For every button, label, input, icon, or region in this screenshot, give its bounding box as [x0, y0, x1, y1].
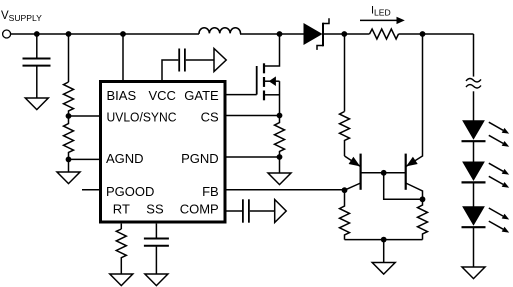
node Q2 collector junction [420, 196, 426, 202]
ground VCC sideways [214, 49, 226, 72]
resistor R2 [64, 116, 74, 159]
node bottom rail junction [381, 237, 387, 243]
ground AGND [57, 172, 80, 184]
inductor L1 [199, 28, 241, 34]
wire AGND to ground [68, 159, 70, 172]
wire divider top lead [68, 34, 70, 82]
wire LED3 to ground [473, 227, 475, 267]
wire inductor to diode [240, 33, 304, 35]
wire break squiggle [466, 78, 481, 88]
resistor R4 RT [116, 229, 126, 274]
wire R6 lead from rail [344, 34, 346, 112]
node diode cathode junction [341, 31, 347, 37]
node PGND junction [277, 154, 283, 160]
node BIAS junction [120, 31, 126, 37]
ground PGND [268, 173, 291, 185]
ground input [25, 98, 48, 110]
svg-text:RT: RT [113, 202, 130, 217]
wire input cap lead [36, 34, 38, 58]
capacitor C3 SS [144, 239, 169, 246]
transistor Q2 PNP [406, 34, 423, 199]
wire COMP cap to ground [250, 210, 275, 212]
node input cap junction [34, 31, 40, 37]
wire top rail [11, 33, 199, 35]
svg-text:AGND: AGND [106, 151, 144, 166]
svg-text:BIAS: BIAS [107, 88, 137, 103]
LED D2 [462, 121, 510, 147]
wire UVLO/SYNC pin [69, 115, 100, 117]
wire GATE pin [227, 94, 257, 96]
node VSUPPLY label [1, 10, 42, 23]
resistor R7 Q1 load [340, 190, 350, 239]
node divider junction [66, 31, 72, 37]
wire LED string drop [473, 34, 475, 77]
capacitor C1 [23, 59, 51, 66]
wire RT pin [120, 224, 122, 229]
svg-text:LED: LED [374, 7, 391, 17]
wire FB pin [227, 189, 345, 191]
wire CS pin [227, 115, 280, 117]
resistor R8 Q2 load [418, 199, 428, 239]
svg-text:FB: FB [202, 184, 219, 199]
wire SS cap to ground [155, 247, 157, 274]
wire LED2 to LED3 [473, 182, 475, 206]
wire diode to resistor [324, 33, 370, 35]
ground LED string [462, 267, 485, 279]
node LED rail junction [420, 31, 426, 37]
node switch junction [277, 31, 283, 37]
wire BIAS pin [122, 34, 124, 80]
wire VCC pin [162, 60, 178, 80]
LED D3 [462, 162, 510, 188]
capacitor C2 VCC bypass [179, 49, 185, 72]
wire PGND pin [227, 156, 280, 158]
svg-text:PGND: PGND [181, 151, 219, 166]
wire LED1 to LED2 [473, 141, 475, 162]
node FB collector junction [342, 187, 348, 193]
svg-text:VCC: VCC [149, 88, 176, 103]
diode D1 schottky [304, 18, 329, 50]
ground SS [145, 274, 168, 286]
svg-text:PGOOD: PGOOD [106, 184, 154, 199]
wire base link [361, 172, 406, 174]
resistor R1 [64, 82, 74, 116]
wire rail to ground [383, 240, 385, 263]
transistor Q1 PNP [345, 154, 361, 191]
wire VCC cap to ground [186, 59, 214, 61]
svg-text:CS: CS [201, 109, 219, 124]
wire COMP pin [227, 210, 243, 212]
wire ILED arrow [360, 17, 405, 24]
wire break resume [473, 91, 475, 121]
wire input cap to ground [36, 67, 38, 99]
svg-text:COMP: COMP [180, 202, 219, 217]
node CS junction [277, 113, 283, 119]
svg-text:GATE: GATE [184, 88, 219, 103]
node base junction [381, 170, 387, 176]
wire sense to ground [279, 157, 281, 173]
capacitor C4 COMP [243, 199, 249, 222]
svg-text:SS: SS [146, 202, 164, 217]
wire SS pin [155, 224, 157, 238]
wire base to Q2 collector [384, 173, 423, 200]
resistor R3 sense [275, 116, 285, 158]
node pin labels [106, 88, 219, 217]
node UVLO junction [66, 113, 72, 119]
resistor R6 Q1 emitter [340, 112, 350, 157]
svg-text:UVLO/SYNC: UVLO/SYNC [107, 109, 177, 124]
ground mirror [372, 263, 395, 275]
wire mirror bottom rail [345, 239, 423, 241]
LED D4 [462, 207, 510, 233]
op-amp U1 IC body [101, 82, 226, 223]
wire PGOOD stub [82, 189, 99, 191]
terminal VSUPPLY [3, 30, 11, 38]
transistor M1 MOSFET [257, 34, 280, 116]
ground COMP sideways [275, 200, 287, 223]
wire resistor to corner [399, 33, 474, 35]
node ILED label [371, 4, 391, 17]
ground RT [110, 274, 133, 286]
svg-text:SUPPLY: SUPPLY [9, 13, 43, 23]
wire AGND pin [69, 158, 100, 160]
resistor R5 current sense [370, 29, 399, 39]
node AGND junction [66, 157, 72, 163]
